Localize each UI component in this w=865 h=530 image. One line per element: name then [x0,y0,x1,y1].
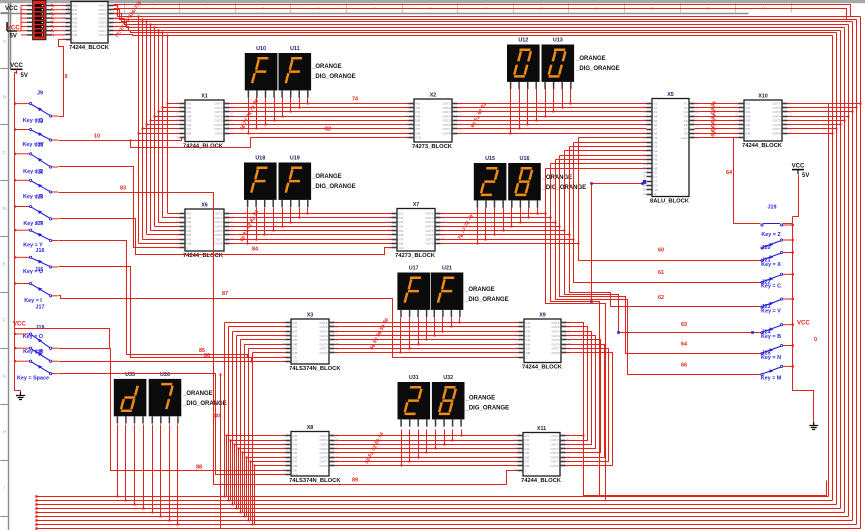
blue bus entry on ALU pin [643,180,646,183]
wire X6 out to X7 in [230,213,392,215]
svg-text:_DIG_ORANGE: _DIG_ORANGE [465,406,510,412]
wire X6 input branch [159,222,180,224]
svg-text:74273_BLOCK: 74273_BLOCK [395,253,436,259]
svg-text:60: 60 [658,248,664,254]
wire net 9 Key Q to 74244 enable [59,40,66,117]
wire U18/U19 pin tap [256,208,258,240]
wire X1 input branch [139,133,180,135]
7-seg display U21 showing F [431,266,464,318]
wire X10 out to right bus [788,133,833,135]
wire net 88 to X8 OC [111,349,286,471]
svg-text:84: 84 [252,247,259,253]
svg-text:64: 64 [681,342,688,348]
wire X1 input branch [163,107,180,109]
wire spare vertical [220,375,222,529]
sheet border left inner ticks [1,12,9,14]
sheet border left line [8,3,10,530]
svg-text:J17: J17 [36,304,45,310]
wire X3 input vertical from bus [228,327,230,501]
wire U12/U13 pin tap [536,89,538,121]
switch Key = U [14,256,58,275]
svg-text:63: 63 [681,322,687,328]
wire X8 input vertical from bus [226,436,228,497]
wire X1 input branch [143,128,180,130]
switch Key = X [761,251,794,267]
svg-text:CLK: CLK [416,136,422,140]
wire X6 input branch [163,217,180,219]
wire U15/U16 pin tap [503,208,505,231]
wire U31/U32 pin tap [435,430,437,449]
wire right vertical [840,31,842,509]
wire X6 input branch [168,213,180,215]
wire U10/U11 pin tap [265,98,267,125]
wire top bus row [114,14,853,22]
wire X8 out to X11 in [335,465,518,467]
part name label ORANGE_DIG_ORANGE [311,174,356,190]
wire U12/U13 pin tap [553,89,555,112]
wire X3 out to X9 in [335,348,519,350]
wire net 60 ALU B1 to Key X [579,138,761,261]
wire top border row 2 [114,9,847,20]
svg-text:J24: J24 [35,221,44,227]
svg-text:CLK: CLK [293,473,299,477]
svg-text:X3: X3 [307,313,314,319]
wire bottom bus row [37,528,861,530]
wire U12/U13 pin tap [570,89,572,104]
wire top bus row [114,6,861,17]
svg-text:U26: U26 [160,372,170,378]
ground symbol [16,392,25,400]
switch Key = Space [14,360,58,382]
svg-text:F8: F8 [684,132,688,136]
svg-text:A3: A3 [654,110,658,114]
switch Key = M [761,365,794,381]
wire X10 out to right bus [788,128,837,130]
wire X7 out toward ALU B [441,213,546,215]
svg-text:_ORANGE: _ORANGE [182,391,213,397]
switch Key = R [14,179,58,200]
svg-text:N5: N5 [654,153,658,157]
rail top segment [793,175,799,217]
red rail stem [16,70,18,74]
wire X6 out to X7 in [230,234,392,236]
wire U15/U16 pin tap [520,208,522,223]
wire X3 input branch [225,322,286,324]
wire X10 out to right bus [788,103,861,105]
wire ALU F out to X10 in [695,128,739,130]
wire top bus row [114,19,849,25]
wire U31/U32 pin tap [461,430,463,436]
wire X2 out to ALU A in [458,116,647,118]
svg-text:9: 9 [65,74,68,80]
wire left bundle vertical [138,17,140,244]
svg-text:74244_BLOCK: 74244_BLOCK [521,478,562,484]
wire U18/U19 pin tap [290,208,292,223]
rotated net number labels [239,98,260,132]
wire left bundle vertical [142,20,144,240]
wire U17/U21 pin tap [434,318,436,336]
7-seg display U11 showing F [279,46,312,98]
wire X1 out to X2 in [230,107,409,109]
wire X3 input vertical from bus [240,340,242,513]
wire U18/U19 pin tap [282,208,284,227]
IC X1 74244_BLOCK [176,94,234,150]
red rail from VCC to key switches [14,73,16,391]
wire U17/U21 pin tap [418,318,420,345]
wire X9/X11 out vertical [566,332,592,445]
wire X9/X11 out vertical [566,340,601,453]
wire net 10 to X2 CLK under X1 [131,138,409,148]
wire ALU F out to X10 in [695,103,739,105]
wire U12/U13 pin tap [545,89,547,117]
wire X9/X11 out vertical [566,353,613,466]
svg-text:74: 74 [352,97,359,103]
wire ALU B3 to key switch [570,147,761,307]
wire ALU F out to X10 in [695,133,739,135]
wire U10/U11 pin tap [290,98,292,112]
wire X8 input branch [231,440,286,442]
svg-text:74LS374N_BLOCK: 74LS374N_BLOCK [289,366,341,372]
wire U33/U26 pin to bus [152,425,154,513]
switch Key = B [761,324,794,340]
svg-text:H: H [3,429,6,434]
wires DIP switch right to IC U-key inputs [52,6,66,35]
svg-text:X2: X2 [430,93,437,99]
wire X7 out toward ALU B [441,234,570,236]
wire X10 out to right bus [788,111,853,113]
wire X1 out to X2 in [230,120,409,122]
wire X6 input branch [151,230,180,232]
wire right vertical [848,25,850,517]
VCC power symbol [792,163,810,179]
svg-text:OUT8: OUT8 [551,351,559,355]
wire Key O [59,348,111,350]
wire X7 out toward ALU B [441,243,579,245]
DIP switch SW1 [33,0,46,39]
svg-text:62: 62 [658,295,664,301]
svg-text:W: W [654,192,657,196]
switch Key = Q [14,90,58,124]
svg-text:J23: J23 [35,195,44,201]
svg-text:_DIG_ORANGE: _DIG_ORANGE [575,66,620,72]
IC X5 8ALU_BLOCK [643,92,699,205]
wire ALU B2 row [574,142,647,144]
svg-text:U11: U11 [290,46,300,52]
wire X6 input branch [139,243,180,245]
svg-text:0: 0 [814,337,817,343]
wire ALU F out to X10 in [695,116,739,118]
wire U12/U13 pin tap [510,89,512,134]
7-seg display U33 showing d [114,372,147,424]
wire top bus row [114,31,837,33]
wire X6 out to X7 in [230,226,392,228]
wire Key U [59,267,252,362]
svg-text:OUT8: OUT8 [214,132,222,136]
wire top border row [114,5,851,17]
wire X6 out to X7 in [230,239,392,241]
svg-text:83: 83 [120,186,126,192]
wire left bundle vertical [167,36,169,214]
switch Key = C [761,273,794,289]
svg-text:82: 82 [325,127,331,133]
svg-text:J24: J24 [762,330,771,336]
switch Key = E [14,153,58,175]
wire ALU F out to X10 in [695,137,739,139]
wire U31/U32 pin tap [418,430,420,458]
IC X10 74244_BLOCK [735,94,792,150]
svg-text:J25: J25 [762,351,771,357]
svg-text:U32: U32 [443,375,453,381]
wire right vertical [836,33,838,505]
wire X8 input vertical from bus [230,441,232,501]
wire X8 input vertical from bus [238,449,240,509]
sheet border top bar [0,0,865,3]
wire X10 out to right bus [788,116,849,118]
wire X2 out to ALU A in [458,128,647,130]
svg-text:J26: J26 [35,349,44,355]
rotated net number labels [50,3,57,38]
svg-text:OUT8: OUT8 [98,33,106,37]
svg-text:OUT8: OUT8 [550,464,558,468]
power bracket [7,22,17,31]
wire left bundle vertical [150,25,152,231]
wire ALU B5 to key switch [560,156,761,354]
wire X2 out to ALU A in [458,124,647,126]
svg-text:_ORANGE: _ORANGE [575,56,606,62]
svg-text:86: 86 [204,353,210,359]
svg-text:J21: J21 [762,258,771,264]
svg-text:J22: J22 [35,170,44,176]
wire bottom bus row [37,496,829,498]
switch [761,239,794,251]
svg-text:5V: 5V [802,173,809,179]
wire X7 out toward ALU B [441,217,551,219]
part name label ORANGE_DIG_ORANGE [182,391,227,407]
wire U31/U32 pin tap [409,430,411,462]
wire net 87 Key I to X9 C [59,296,519,358]
wire net 84 Key T to X7 CLK [59,219,392,255]
wire left bundle vertical [154,28,156,227]
wire X9/X11 out vertical [566,323,584,436]
switch Key = T [14,205,58,226]
svg-text:Cout: Cout [681,136,688,140]
wire X8 input branch [239,448,286,450]
wire bottom bus row [37,500,833,502]
svg-text:_ORANGE: _ORANGE [464,287,495,293]
rotated net number labels vertical stack [710,100,718,138]
wire ALU F out to X10 in [695,107,739,109]
svg-text:80: 80 [214,414,220,420]
wire U15/U16 pin tap [528,208,530,218]
wire X1 input branch [147,124,180,126]
wire X2 out to ALU A in [458,120,647,122]
svg-text:U15: U15 [485,156,495,162]
ground symbol [809,422,818,430]
wire X3 input vertical from bus [232,332,234,505]
wire U17/U21 pin tap [426,318,428,340]
wire X9/X11 out vertical [566,345,605,458]
svg-text:_DIG_ORANGE: _DIG_ORANGE [311,184,356,190]
red rail jog [15,72,17,74]
wire X3 input branch [229,326,286,328]
svg-text:5V: 5V [10,34,17,40]
DIP switch pin stubs [27,6,52,35]
wire left bundle vertical [158,31,160,223]
wire U18/U19 pin tap [307,208,309,214]
left ground wire [15,391,21,393]
svg-text:74LS374N_BLOCK: 74LS374N_BLOCK [289,478,341,484]
wires DIP switch left to VCC rail [15,6,27,35]
wire ALU B7 row [551,163,647,165]
svg-text:_DIG_ORANGE: _DIG_ORANGE [311,74,356,80]
wire X3 out to X9 in [335,331,519,333]
wire U17/U21 pin tap [400,318,402,353]
wire X1 out to X2 in [230,116,409,118]
wire X1 out to X2 in [230,128,409,130]
part name label ORANGE_DIG_ORANGE [575,56,620,72]
wire ALU B4 to key switch [565,151,761,333]
wire X3 out to X9 in [335,326,519,328]
wire U10/U11 pin tap [282,98,284,117]
svg-text:74244_BLOCK: 74244_BLOCK [183,144,224,150]
wire Key Space to X8 CLK [59,374,286,475]
part name label ORANGE_DIG_ORANGE [311,64,356,80]
switch Key = O [14,325,58,349]
wire Key P to X3 CLK [59,361,286,363]
svg-text:VCC: VCC [10,63,23,69]
svg-text:U13: U13 [553,38,563,44]
wire U31/U32 pin tap [444,430,446,445]
svg-text:CLK: CLK [399,246,405,250]
wire X6 input branch [155,226,180,228]
wire right vertical [860,17,862,529]
wire J18 feed [15,329,110,349]
7-seg display U31 showing 2 [398,375,431,427]
wire ALU B4 row [565,150,647,152]
svg-text:66: 66 [681,363,687,369]
switch Key = V [761,298,794,314]
7-seg display U19 showing F [279,156,312,208]
IC X9 74244_BLOCK [515,313,571,371]
wire ALU F out to X10 in [695,111,739,113]
wire U12/U13 pin tap [562,89,564,108]
wire top bus row [114,23,845,28]
wire Key Y to X3 OC [59,241,286,358]
wire X6 out to X7 in [230,230,392,232]
svg-text:X10: X10 [758,94,768,100]
wire ALU B3 row [570,146,647,148]
wire ALU B8 down to bus [546,169,606,501]
wire U33/U26 pin to bus [117,425,119,497]
VCC power symbol [10,63,28,79]
svg-text:89: 89 [352,478,358,484]
svg-text:U17: U17 [409,266,419,272]
wire X2 out to ALU A in [458,111,647,113]
wire X7 out toward ALU B [441,222,556,224]
svg-text:J20: J20 [762,245,771,251]
svg-text:J21: J21 [35,143,44,149]
wire X6 input branch [147,234,180,236]
wire X8 input branch [227,435,286,437]
svg-text:Key = I: Key = I [24,298,42,304]
wire J19 to rail [783,223,793,225]
wire X3 out to X9 in [335,344,519,346]
wire X2 out to ALU A in [458,103,647,105]
svg-text:U12: U12 [518,38,528,44]
svg-text:U21: U21 [442,266,452,272]
wire left bundle vertical [146,22,148,235]
svg-text:J20: J20 [35,119,44,125]
wire net 83/89 Key R to X11 C [59,193,518,485]
svg-text:VCC: VCC [792,163,805,169]
svg-text:F3: F3 [684,110,688,114]
svg-text:E: E [3,262,6,267]
wire X8 out to X11 in [335,457,518,459]
IC X3 74LS374N_BLOCK [282,313,341,373]
wire bottom bus row [37,512,845,514]
svg-text:64: 64 [726,170,733,176]
wire ALU B6 to key switch [556,160,761,375]
IC 74244_BLOCK [62,2,118,52]
7-seg display U26 showing 7 [149,372,182,424]
wire X6 out to X7 in [230,243,392,245]
svg-text:Key = Z: Key = Z [761,232,781,238]
wire X3 out to X9 in [335,352,519,354]
svg-text:J19: J19 [768,205,777,211]
wire U15/U16 pin tap [477,208,479,244]
svg-text:J22: J22 [762,279,771,285]
svg-text:OUT8: OUT8 [425,242,433,246]
wire top bus row [114,27,841,31]
wire X6 out to X7 in [230,222,392,224]
wire U15/U16 pin tap [537,208,539,214]
rotated net number labels [369,317,390,351]
wire X3 input vertical from bus [236,336,238,509]
svg-text:_ORANGE: _ORANGE [311,64,342,70]
rotated net number labels [114,0,143,39]
svg-text:_ORANGE: _ORANGE [465,396,496,402]
svg-text:U19: U19 [290,156,300,162]
wire X3 input vertical from bus [244,345,246,517]
svg-text:Key = M: Key = M [761,376,782,382]
svg-text:5V: 5V [21,73,28,79]
wire right vertical [844,28,846,513]
switch Key = Z [761,224,794,239]
wire left bundle vertical [162,33,164,218]
wire X8 input branch [235,444,286,446]
svg-text:VCC: VCC [797,321,810,327]
svg-text:Key = Space: Key = Space [17,376,49,382]
svg-text:X8: X8 [307,425,314,431]
svg-text:87: 87 [222,291,228,297]
rotated net number labels [364,431,385,465]
svg-text:74244_BLOCK: 74244_BLOCK [742,143,783,149]
wire ALU Cin horizontal [592,183,647,185]
svg-text:I: I [4,485,5,490]
IC X6 74244_BLOCK [176,203,234,260]
wire ALU B1 row [579,137,647,139]
svg-text:_DIG_ORANGE: _DIG_ORANGE [182,401,227,407]
wire U18/U19 pin tap [247,208,249,244]
wire X8 input vertical from bus [234,445,236,505]
wire bottom bus row [37,524,857,526]
wire right vertical [856,20,858,525]
wire X8 out to X11 in [335,444,518,446]
wire X1 input branch [159,111,180,113]
wire X9/X11 out vertical [566,336,596,449]
switch Key = N [761,344,794,360]
wire X9/X11 out vertical [566,349,609,462]
